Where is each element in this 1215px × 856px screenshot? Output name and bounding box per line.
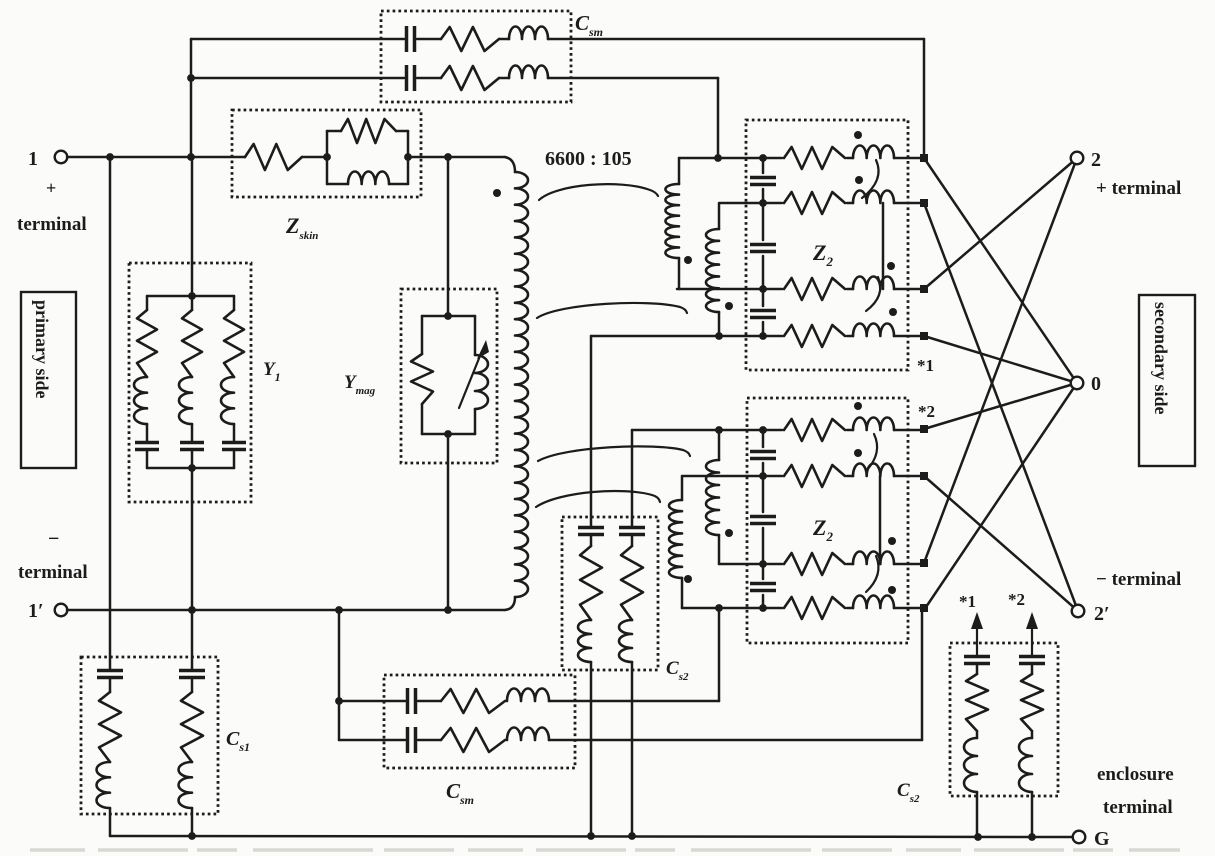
node terminal n4 bbox=[920, 332, 928, 340]
node junction x339 branch1 bbox=[335, 697, 343, 705]
wire Zskin parallel bottom right lead bbox=[389, 183, 408, 186]
secondary winding S2 bbox=[706, 229, 719, 312]
coupling arc 1 bbox=[539, 184, 658, 200]
wire Z2 lower branch1 out bbox=[894, 429, 921, 432]
svg-text:1: 1 bbox=[28, 148, 38, 170]
resistor Cs2 right branch1 bbox=[966, 674, 988, 731]
coupling curve Z2 lower pair A bbox=[866, 434, 877, 471]
resistor Z2 upper branch3 bbox=[784, 278, 845, 300]
capacitor Cs1 branch2 bbox=[179, 671, 205, 678]
polarity dot S3 bbox=[725, 529, 733, 537]
svg-text:terminal: terminal bbox=[17, 214, 87, 235]
secondary winding S3 top stub bbox=[718, 430, 721, 460]
wire n2 to 2' bbox=[924, 203, 1078, 611]
wire 1' horizontal bbox=[67, 609, 505, 612]
wire Cs1 branch2 top stub bbox=[191, 610, 194, 670]
wire Ymag left stub bottom bbox=[421, 404, 424, 434]
polarity dot Z2 upper L1 bbox=[854, 131, 862, 139]
polarity dot S4 bbox=[684, 575, 692, 583]
inductor Cs2 right branch1 bbox=[964, 738, 977, 792]
node terminal n3 bbox=[920, 285, 928, 293]
node terminal n6 bbox=[920, 472, 928, 480]
node junction x719 on lower branch4 bbox=[715, 604, 723, 612]
wire Cs2 right branch1 stub bbox=[976, 664, 979, 674]
wire Z2 lower bus seg3 bbox=[762, 528, 765, 579]
svg-text:1′: 1′ bbox=[28, 600, 44, 622]
resistor Cs2 right branch2 bbox=[1021, 674, 1043, 731]
node junction Csm branch2 x191 bbox=[187, 74, 195, 82]
capacitance box Cs2 (right) bbox=[950, 643, 1058, 796]
resistor Zskin parallel bbox=[341, 119, 396, 143]
wire Z2 upper bus seg2 bbox=[762, 189, 765, 240]
wire Z2 upper bus seg4 bbox=[762, 322, 765, 336]
wire Cs1 branch2 stub bbox=[191, 678, 194, 692]
resistor Zskin series bbox=[245, 144, 302, 170]
wire Z2 upper inner vertical bbox=[882, 203, 885, 289]
svg-text:+: + bbox=[46, 178, 56, 198]
capacitance box Cs1 bbox=[81, 657, 218, 814]
wire Csm branch1 mid bbox=[417, 38, 441, 41]
node Z2 lower bus y564 bbox=[759, 560, 767, 568]
node Zskin left of parallel bbox=[323, 153, 331, 161]
node on main wire at x110 bbox=[106, 153, 114, 161]
wire Cs2 mid branch2 top vertical bbox=[631, 430, 634, 526]
inductor Y1 branch2 bbox=[179, 377, 192, 424]
wire Ymag top rail bbox=[422, 315, 475, 318]
polarity dot Z2 lower L3 bbox=[888, 537, 896, 545]
coupling arc 2 bbox=[537, 303, 687, 318]
wire secondary branch1 line (lower) bbox=[632, 429, 782, 432]
resistor Cs2 mid branch1 bbox=[580, 546, 602, 620]
resistor Y1 branch2 bbox=[182, 310, 202, 377]
wire n3 to 2 bbox=[924, 158, 1077, 289]
capacitor Y1 branch1 bbox=[135, 443, 159, 450]
wire Y1 feed vertical bbox=[191, 157, 194, 296]
wire Csm branch2 mid bbox=[417, 77, 441, 80]
svg-text:−: − bbox=[48, 528, 59, 550]
node Z2 upper bus y289 bbox=[759, 285, 767, 293]
impedance box Z2 (upper) bbox=[746, 120, 908, 370]
capacitor Z2 lower bus 3 bbox=[750, 584, 776, 591]
resistor Y1 branch1 bbox=[137, 310, 157, 377]
inductor Cs2 mid branch2 bbox=[619, 620, 632, 662]
wire n1 to 0 bbox=[924, 158, 1077, 383]
capacitor Z2 lower bus 2 bbox=[750, 517, 776, 524]
node junction x718 on branch1 bbox=[714, 154, 722, 162]
node terminal n7 bbox=[920, 559, 928, 567]
svg-text:2: 2 bbox=[1091, 149, 1101, 171]
impedance box Z2 (lower) bbox=[747, 398, 908, 643]
polarity dot Z2 upper L4 bbox=[889, 308, 897, 316]
wire Zskin parallel right vertical bbox=[407, 131, 410, 184]
inductor Cs2 right branch2 bbox=[1019, 738, 1032, 792]
capacitor Cs2 right branch1 bbox=[964, 657, 990, 664]
wire Csm branch2 mid2 bbox=[499, 77, 509, 80]
inductor Csm branch2 bbox=[509, 66, 548, 79]
node ground x632 bbox=[628, 832, 636, 840]
secondary winding S4 bbox=[669, 500, 682, 578]
svg-text:Ymag: Ymag bbox=[344, 372, 376, 397]
arrow of variable inductor bbox=[459, 351, 482, 408]
wire n7 to 2 bbox=[924, 158, 1077, 563]
svg-text:G: G bbox=[1094, 828, 1110, 850]
wire Csm bottom left vertical bbox=[338, 610, 341, 740]
inductor Z2 upper branch2 bbox=[853, 190, 894, 203]
wire Zskin parallel top right lead bbox=[396, 130, 408, 133]
wire secondary branch4 line (lower) bbox=[682, 607, 782, 610]
wire Cs2 right branch1 mid bbox=[976, 731, 979, 738]
node Z2 upper bus y158 bbox=[759, 154, 767, 162]
wire Cs2 mid branch1 stub bbox=[590, 535, 593, 546]
capacitor Csm bottom branch1 bbox=[408, 688, 416, 714]
node Zskin right of parallel bbox=[404, 153, 412, 161]
wire Y1 branch2 bottom stub bbox=[191, 450, 194, 468]
wire Z2 upper branch3 mid bbox=[847, 288, 853, 291]
wire Y1 branch3 top stub bbox=[233, 296, 236, 310]
resistor Z2 upper branch2 bbox=[784, 192, 845, 214]
wire vertical x924 down to node n1 bbox=[923, 39, 926, 155]
node Z2 lower bus y430 bbox=[759, 426, 767, 434]
polarity dot Z2 upper L2 bbox=[855, 176, 863, 184]
inductor Csm bottom branch2 bbox=[507, 727, 549, 740]
resistor Csm bottom branch1 bbox=[441, 689, 505, 713]
node Y1 bottom bbox=[188, 464, 196, 472]
wire secondary branch2 line (lower) bbox=[682, 476, 782, 500]
wire Ymag left stub top bbox=[421, 316, 424, 354]
capacitor Y1 branch2 bbox=[180, 443, 204, 450]
wire main to transformer bbox=[408, 156, 505, 159]
inductor Z2 lower branch3 bbox=[853, 551, 894, 564]
capacitor Z2 upper bus 2 bbox=[750, 245, 776, 252]
primary winding P1 bbox=[515, 172, 528, 597]
wire Z2 lower inner vertical bbox=[879, 476, 882, 564]
coupling curve Z2 upper pair B bbox=[866, 277, 880, 311]
secondary winding S4 bottom stem bbox=[681, 578, 684, 608]
capacitance box Cs2 (middle) bbox=[562, 517, 658, 670]
node ground x192 bbox=[188, 832, 196, 840]
resistor Z2 lower branch4 bbox=[784, 597, 845, 619]
polarity dot Z2 upper L3 bbox=[887, 262, 895, 270]
wire secondary branch3 line (lower) bbox=[719, 563, 782, 566]
svg-text:Y1: Y1 bbox=[263, 359, 281, 384]
resistor Csm branch2 bbox=[441, 66, 499, 90]
svg-text:primary side: primary side bbox=[32, 300, 52, 399]
inductor Z2 lower branch4 bbox=[853, 595, 894, 608]
wire Y1 branch1 mid stub bbox=[146, 424, 149, 442]
node Z2 lower bus y476 bbox=[759, 472, 767, 480]
node Z2 lower bus y608 bbox=[759, 604, 767, 612]
wire Z2 upper bus seg3 bbox=[762, 256, 765, 306]
wire Zskin parallel left vertical bbox=[326, 131, 329, 184]
node ground x978 bbox=[974, 833, 982, 841]
wire Z2 lower branch4 mid bbox=[847, 607, 853, 610]
polarity dot Z2 lower L2 bbox=[854, 449, 862, 457]
secondary winding S1 bottom stem bbox=[678, 258, 681, 289]
node terminal n1 bbox=[920, 154, 928, 162]
inductor Z2 lower branch2 bbox=[853, 463, 894, 476]
wire secondary branch1 line (upper) bbox=[679, 157, 782, 160]
svg-text:− terminal: − terminal bbox=[1096, 569, 1181, 590]
capacitor Z2 upper bus 1 bbox=[750, 178, 776, 185]
node junction x719 on branch4 bbox=[715, 332, 723, 340]
svg-text:Csm: Csm bbox=[575, 11, 603, 39]
polarity dot Z2 lower L4 bbox=[888, 586, 896, 594]
wire Y1 branch1 top stub bbox=[146, 296, 149, 310]
resistor Csm branch1 bbox=[441, 27, 499, 51]
wire Ymag down vertical bbox=[447, 434, 450, 610]
svg-text:Cs2: Cs2 bbox=[666, 658, 689, 683]
node junction 1' wire x192 bbox=[188, 606, 196, 614]
wire Z2 lower branch3 mid bbox=[847, 563, 853, 566]
wire Csm branch1 right to x924 bbox=[548, 38, 924, 41]
wire Z2 upper branch2 mid bbox=[847, 202, 853, 205]
resistor Ymag bbox=[411, 354, 433, 404]
inductor Cs1 branch2 bbox=[179, 762, 192, 808]
resistor Z2 upper branch1 bbox=[784, 147, 845, 169]
wire Y1 branch1 bottom stub bbox=[146, 450, 149, 468]
wire Zskin parallel top lead bbox=[327, 130, 341, 133]
svg-text:2′: 2′ bbox=[1094, 603, 1110, 625]
inductor Z2 upper branch4 bbox=[853, 323, 894, 336]
wire Y1 branch2 top stub bbox=[191, 296, 194, 310]
node Ymag top bbox=[444, 312, 452, 320]
polarity dot primary bbox=[493, 189, 501, 197]
inductor Y1 branch3 bbox=[221, 377, 234, 424]
coupling arc 3 bbox=[538, 446, 690, 461]
wire Z2 lower bus seg1 bbox=[762, 430, 765, 447]
wire secondary branch4 line (upper) bbox=[591, 335, 782, 338]
terminal 2 bbox=[1071, 152, 1084, 165]
capacitor Cs1 branch1 bbox=[97, 671, 123, 678]
inductor Csm branch1 bbox=[509, 26, 548, 39]
node junction x719 on lower branch1 bbox=[715, 426, 723, 434]
resistor Csm bottom branch2 bbox=[441, 728, 505, 752]
wire Cs1 branch1 down bbox=[109, 808, 112, 836]
wire n4 to 0 bbox=[924, 336, 1077, 383]
wire Z2 upper branch1 mid bbox=[847, 157, 853, 160]
wire hook out of primary winding bbox=[505, 597, 515, 610]
wire Y1 branch3 bottom stub bbox=[233, 450, 236, 468]
wire Z2 upper branch2 out bbox=[894, 202, 921, 205]
primary side box bbox=[21, 292, 76, 468]
wire Zskin parallel bottom lead bbox=[327, 183, 348, 186]
capacitor-RL box Csm (top) bbox=[381, 11, 571, 102]
inductor Csm bottom branch1 bbox=[507, 689, 549, 702]
wire Z2 lower branch1 mid bbox=[847, 429, 853, 432]
node Z2 upper bus y203 bbox=[759, 199, 767, 207]
node main wire Ymag tap bbox=[444, 153, 452, 161]
svg-text:6600 : 105: 6600 : 105 bbox=[545, 148, 632, 170]
wire Z2 upper branch4 out bbox=[894, 335, 921, 338]
resistor Y1 branch3 bbox=[224, 310, 244, 377]
svg-text:Cs2: Cs2 bbox=[897, 780, 920, 805]
svg-text:*2: *2 bbox=[1008, 590, 1025, 609]
capacitor Cs2 mid branch2 bbox=[619, 528, 645, 535]
wire Z2 lower branch4 out bbox=[894, 607, 921, 610]
wire Z2 lower branch2 out bbox=[894, 475, 921, 478]
resistor Cs1 branch1 bbox=[99, 692, 121, 762]
secondary winding S1 bbox=[665, 184, 679, 258]
wire Z2 lower branch2 mid bbox=[847, 475, 853, 478]
node Ymag bottom bbox=[444, 430, 452, 438]
wire Z2 upper branch4 mid bbox=[847, 335, 853, 338]
admittance box Ymag bbox=[401, 289, 497, 463]
wire ground bottom bbox=[110, 836, 1073, 837]
wire Csm branch1 mid2 bbox=[499, 38, 509, 41]
coupling curve Z2 upper pair A bbox=[862, 160, 879, 198]
admittance box Y1 bbox=[129, 263, 251, 502]
wire Z2 upper branch1 out bbox=[894, 157, 921, 160]
wire Cs2 right branch2 mid bbox=[1031, 731, 1034, 738]
svg-text:enclosure: enclosure bbox=[1097, 764, 1174, 785]
wire Z2 upper bus seg1 bbox=[762, 158, 765, 173]
secondary winding S3 bbox=[706, 460, 719, 535]
wire Ymag bottom rail bbox=[422, 433, 475, 436]
svg-text:Zskin: Zskin bbox=[285, 213, 318, 242]
svg-text:*1: *1 bbox=[959, 592, 976, 611]
node Z2 upper bus y336 bbox=[759, 332, 767, 340]
wire Y1 branch3 mid stub bbox=[233, 424, 236, 442]
coupling curve Z2 lower pair B bbox=[866, 556, 878, 592]
wire Cs2 mid branch1 down bbox=[590, 662, 593, 836]
wire main horizontal from terminal 1 bbox=[67, 156, 245, 159]
capacitor Csm branch2 bbox=[407, 65, 415, 91]
arrow to *2 bbox=[1031, 627, 1033, 655]
secondary side box bbox=[1139, 295, 1195, 466]
wire Zskin mid bbox=[302, 156, 327, 159]
svg-text:Cs1: Cs1 bbox=[226, 728, 250, 754]
wire Z2 lower branch3 out bbox=[894, 563, 921, 566]
inductor Y1 branch1 bbox=[134, 377, 147, 424]
capacitor Csm branch1 bbox=[407, 26, 415, 52]
node ground x591 bbox=[587, 832, 595, 840]
wire Cs1 branch1 stub bbox=[109, 678, 112, 692]
capacitor Cs2 right branch2 bbox=[1019, 657, 1045, 664]
wire Y1 top rail bbox=[147, 295, 234, 298]
svg-text:0: 0 bbox=[1091, 373, 1101, 395]
wire Csm bottom branch2 mid bbox=[418, 739, 441, 742]
svg-text:secondary side: secondary side bbox=[1151, 302, 1171, 415]
resistor Cs2 mid branch2 bbox=[621, 546, 643, 620]
wire left vertical x110 bbox=[109, 157, 112, 610]
secondary winding S1 top stub bbox=[678, 158, 681, 184]
wire n6 to 2' bbox=[924, 476, 1078, 611]
wire Z2 lower bus seg4 bbox=[762, 595, 765, 608]
wire branch1 return vertical x719 bbox=[718, 610, 721, 701]
wire hook into primary winding bbox=[505, 157, 515, 172]
coupling arc 4 bbox=[536, 491, 660, 507]
resistor Z2 lower branch1 bbox=[784, 419, 845, 441]
svg-text:terminal: terminal bbox=[1103, 797, 1173, 818]
capacitor Cs2 mid branch1 bbox=[578, 528, 604, 535]
inductor Z2 upper branch3 bbox=[853, 276, 894, 289]
node terminal n8 bbox=[920, 604, 928, 612]
wire branch2 return vertical x922 bbox=[921, 612, 924, 740]
svg-text:*1: *1 bbox=[917, 356, 934, 375]
wire secondary branch3 line (upper) bbox=[677, 288, 782, 291]
terminal G bbox=[1073, 831, 1086, 844]
capacitor-RL box Csm (bottom) bbox=[384, 675, 575, 768]
node Y1 top bbox=[188, 292, 196, 300]
capacitor Z2 lower bus 1 bbox=[750, 452, 776, 459]
wire Csm bottom branch1 right bbox=[549, 700, 719, 703]
wire Cs2 right branch2 stub bbox=[1031, 664, 1034, 674]
wire Csm bottom branch1 left bbox=[339, 700, 405, 703]
node terminal n5 bbox=[920, 425, 928, 433]
capacitor Z2 upper bus 3 bbox=[750, 311, 776, 318]
resistor Z2 lower branch3 bbox=[784, 553, 845, 575]
wire n5 to 0 bbox=[924, 383, 1077, 429]
svg-text:Z2: Z2 bbox=[812, 240, 833, 269]
svg-text:Z2: Z2 bbox=[812, 515, 833, 544]
polarity dot Z2 lower L1 bbox=[854, 402, 862, 410]
wire Y1 down vertical bbox=[191, 468, 194, 610]
capacitor Csm bottom branch2 bbox=[408, 727, 416, 753]
scan artifact bottom edge bbox=[30, 848, 1180, 852]
capacitor Y1 branch3 bbox=[222, 443, 246, 450]
node junction 1' wire x448 bbox=[444, 606, 452, 614]
wire n8 to 0 bbox=[924, 383, 1077, 610]
wire Cs2 mid branch2 stub bbox=[631, 535, 634, 546]
variable inductor Ymag bbox=[475, 355, 488, 409]
wire Csm top branch2 left bbox=[191, 77, 404, 80]
svg-text:Csm: Csm bbox=[446, 779, 474, 807]
wire Ymag feed vertical bbox=[447, 157, 450, 316]
terminal 1 bbox=[55, 151, 68, 164]
wire Cs2 right branch2 down bbox=[1031, 792, 1034, 837]
svg-text:*2: *2 bbox=[918, 402, 935, 421]
wire Y1 branch2 mid stub bbox=[191, 424, 194, 442]
node ground x1032 bbox=[1028, 833, 1036, 841]
inductor Zskin parallel bbox=[348, 171, 389, 184]
polarity dot S1 bbox=[684, 256, 692, 264]
terminal 1' bbox=[55, 604, 68, 617]
node junction 1' wire x339 bbox=[335, 606, 343, 614]
secondary winding S2 bottom stem bbox=[718, 312, 721, 336]
resistor Z2 lower branch2 bbox=[784, 465, 845, 487]
wire Cs2 mid branch2 down bbox=[631, 662, 634, 836]
wire Csm bottom branch2 right bbox=[549, 739, 922, 742]
wire Csm bottom branch1 mid bbox=[418, 700, 441, 703]
terminal 2' bbox=[1072, 605, 1085, 618]
node junction main wire x191 bbox=[187, 153, 195, 161]
wire Ymag right stub top bbox=[474, 316, 477, 355]
secondary winding S3 bottom stem bbox=[718, 535, 721, 564]
wire Z2 lower bus seg2 bbox=[762, 463, 765, 512]
node terminal n2 bbox=[920, 199, 928, 207]
svg-text:+ terminal: + terminal bbox=[1096, 178, 1181, 199]
wire vertical x718 down bbox=[717, 78, 720, 158]
wire Ymag right stub bottom bbox=[474, 409, 477, 434]
wire Csm bottom branch2 left bbox=[339, 739, 405, 742]
resistor Z2 upper branch4 bbox=[784, 325, 845, 347]
wire Csm top branch1 left bbox=[191, 38, 404, 41]
node 0 terminal bbox=[1071, 377, 1084, 390]
wire Csm branch2 right to x718 bbox=[548, 77, 718, 80]
resistor Cs1 branch2 bbox=[181, 692, 203, 762]
inductor Cs2 mid branch1 bbox=[578, 620, 591, 662]
wire Cs2 right branch1 down bbox=[976, 792, 979, 837]
wire vertical x191 to top Csm bbox=[190, 39, 193, 157]
svg-text:terminal: terminal bbox=[18, 562, 88, 583]
wire Y1 bottom rail bbox=[147, 467, 234, 470]
polarity dot S2 bbox=[725, 302, 733, 310]
wire secondary branch2 line (upper) bbox=[719, 203, 782, 229]
wire Cs1 branch2 down bbox=[191, 808, 194, 836]
inductor Z2 upper branch1 bbox=[853, 145, 894, 158]
wire Z2 upper branch3 out bbox=[894, 288, 921, 291]
impedance box Zskin bbox=[232, 110, 421, 197]
